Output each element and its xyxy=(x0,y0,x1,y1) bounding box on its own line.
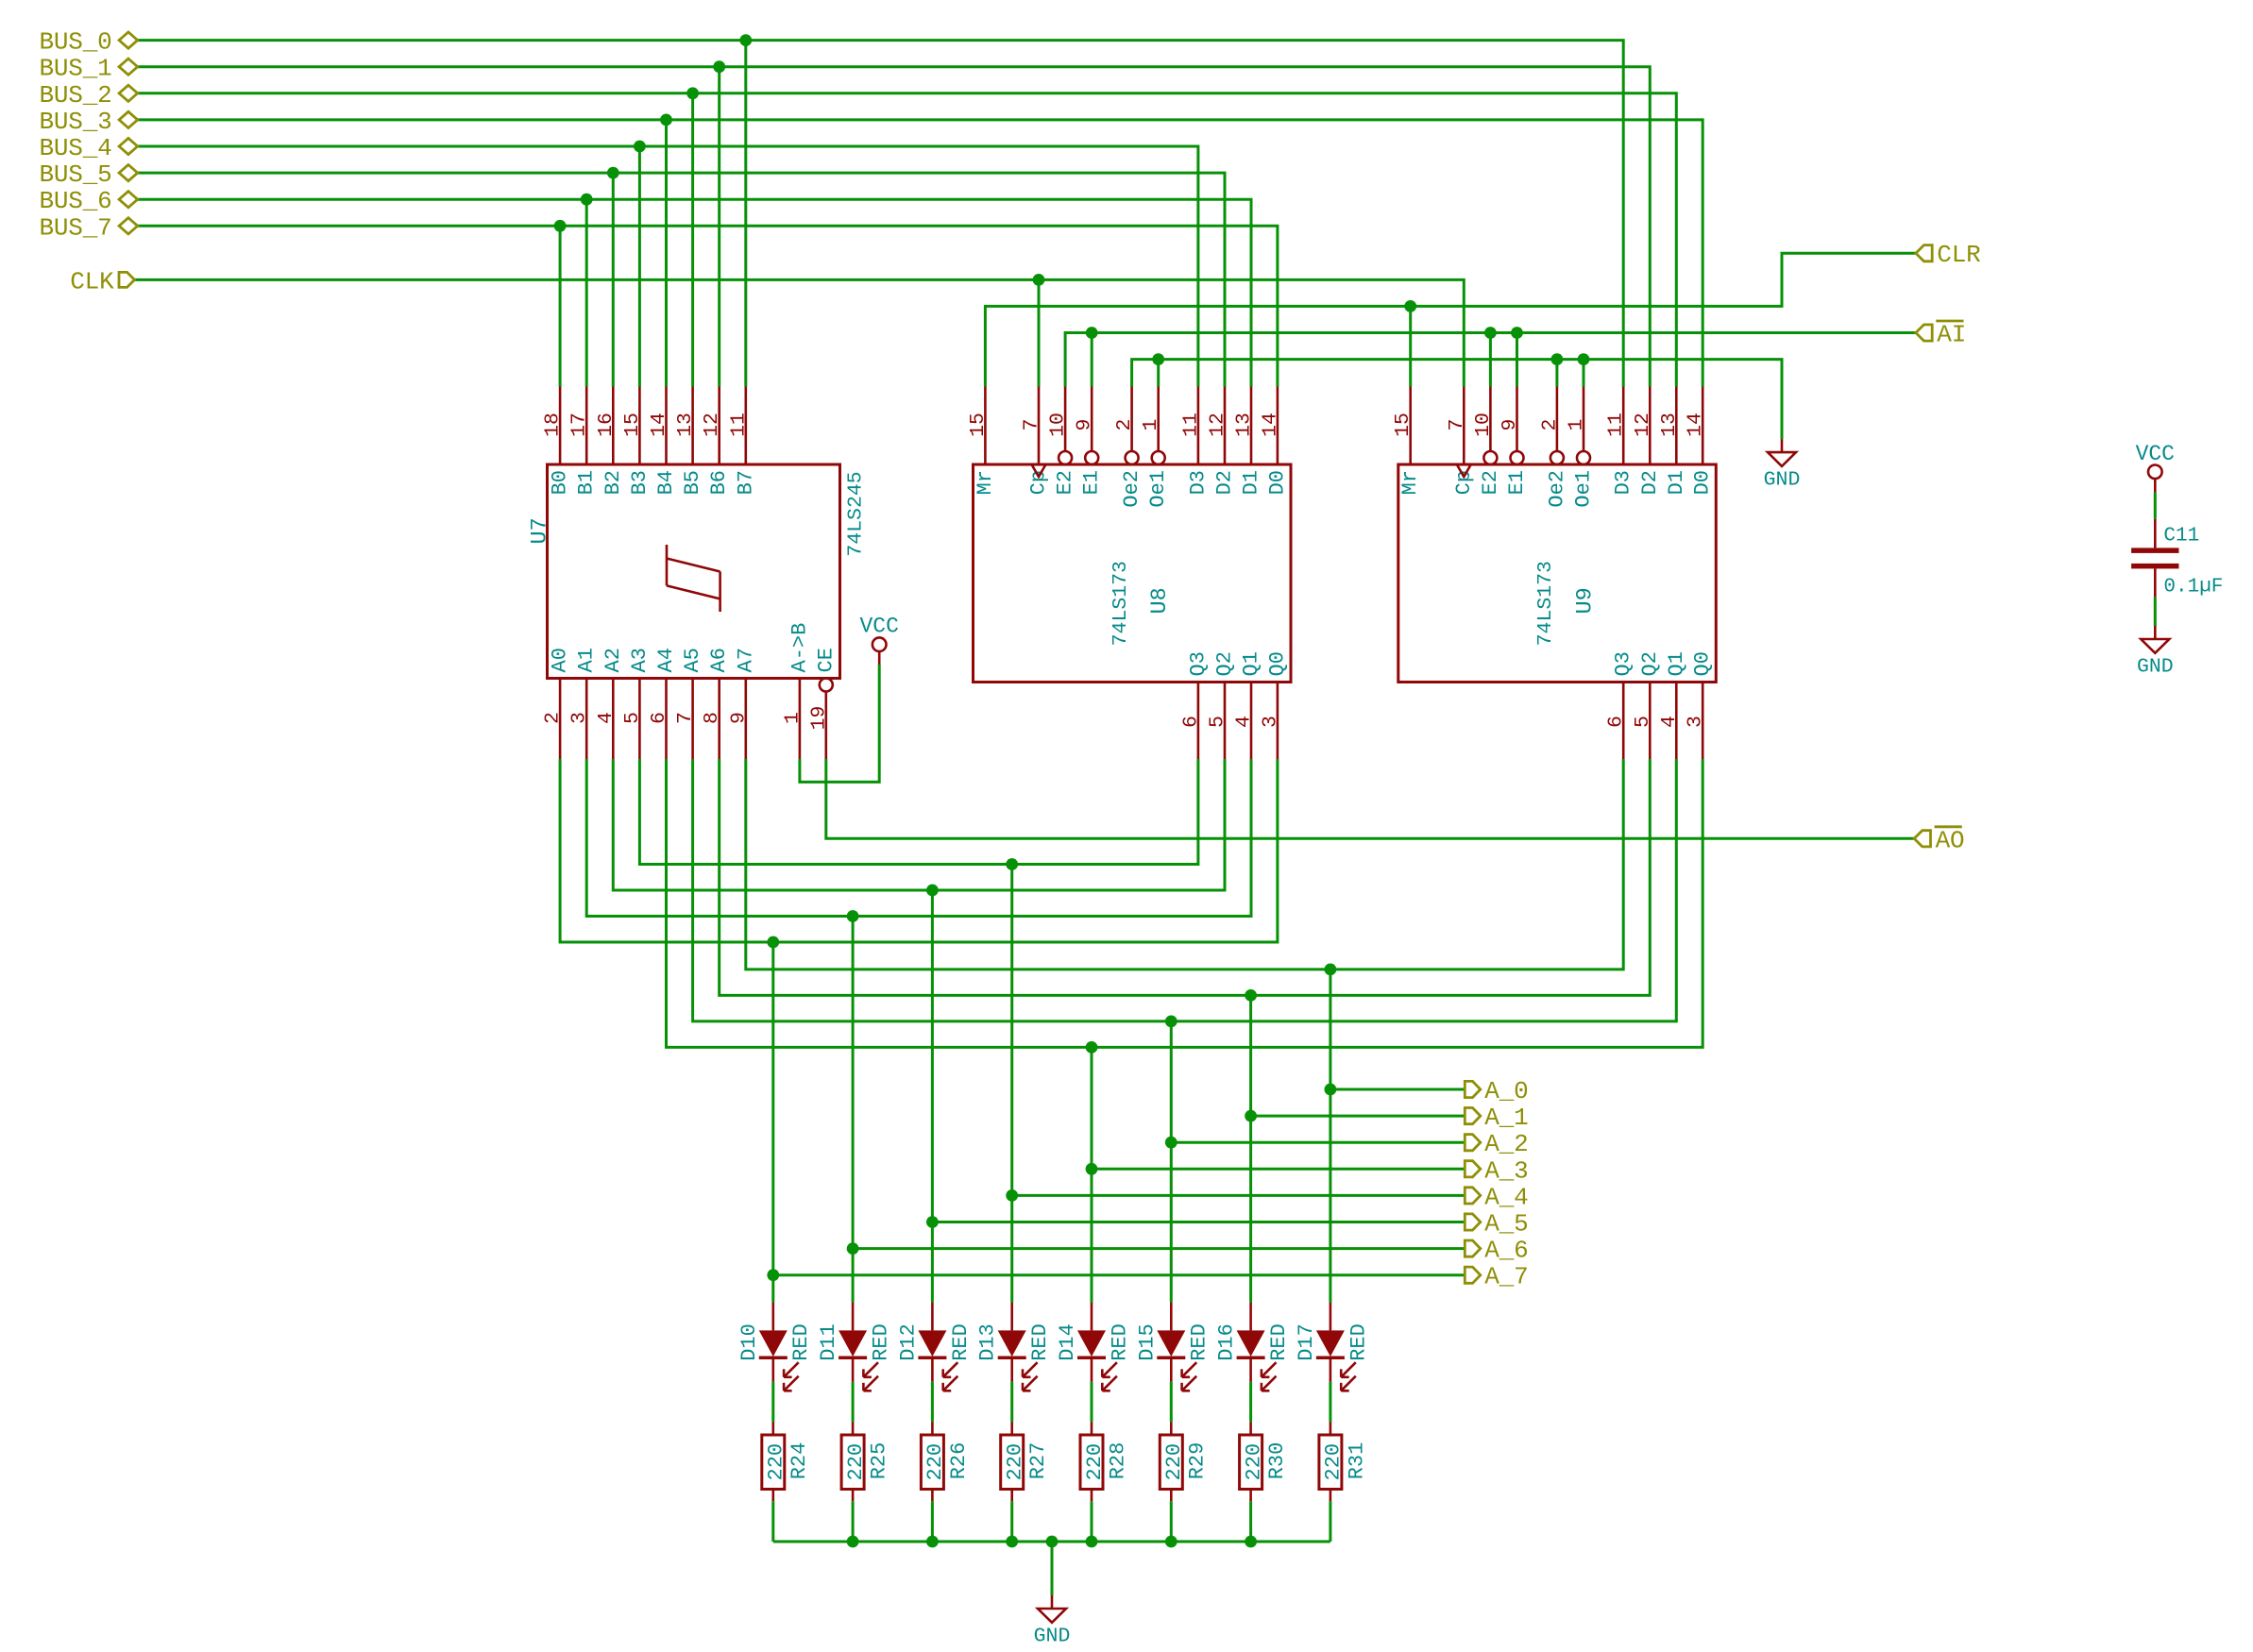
svg-text:RED: RED xyxy=(1108,1323,1131,1361)
svg-text:B1: B1 xyxy=(575,470,599,495)
svg-text:D15: D15 xyxy=(1135,1323,1159,1361)
svg-text:7: 7 xyxy=(1446,419,1468,431)
svg-text:6: 6 xyxy=(648,712,670,724)
svg-text:D12: D12 xyxy=(896,1323,920,1361)
svg-text:A0: A0 xyxy=(549,648,572,672)
svg-text:13: 13 xyxy=(1233,413,1256,437)
svg-text:R26: R26 xyxy=(947,1442,971,1480)
svg-text:14: 14 xyxy=(648,413,670,437)
svg-text:RED: RED xyxy=(949,1323,973,1361)
svg-text:7: 7 xyxy=(1021,419,1043,431)
svg-text:B3: B3 xyxy=(628,470,652,495)
svg-text:Q0: Q0 xyxy=(1265,651,1289,676)
svg-text:1: 1 xyxy=(781,712,804,724)
svg-text:16: 16 xyxy=(595,413,618,437)
svg-text:1: 1 xyxy=(1140,419,1162,431)
svg-text:220: 220 xyxy=(1322,1443,1346,1481)
svg-text:11: 11 xyxy=(1179,413,1202,437)
svg-text:13: 13 xyxy=(1658,413,1681,437)
svg-text:12: 12 xyxy=(1207,413,1229,437)
svg-text:B2: B2 xyxy=(601,470,625,495)
svg-text:3: 3 xyxy=(1685,716,1707,728)
svg-text:A_5: A_5 xyxy=(1484,1210,1528,1239)
svg-text:Cp: Cp xyxy=(1027,470,1051,495)
svg-text:D10: D10 xyxy=(737,1323,761,1361)
svg-text:BUS_4: BUS_4 xyxy=(39,134,111,162)
svg-text:GND: GND xyxy=(1764,469,1801,492)
svg-text:E2: E2 xyxy=(1479,470,1502,495)
svg-text:AI: AI xyxy=(1937,321,1966,349)
svg-text:19: 19 xyxy=(807,706,830,731)
svg-text:B0: B0 xyxy=(549,470,572,495)
svg-text:D2: D2 xyxy=(1213,470,1237,495)
svg-text:D14: D14 xyxy=(1056,1323,1079,1361)
svg-text:BUS_6: BUS_6 xyxy=(39,187,111,215)
svg-text:3: 3 xyxy=(1259,716,1281,728)
svg-text:BUS_2: BUS_2 xyxy=(39,81,111,110)
svg-text:BUS_1: BUS_1 xyxy=(39,55,111,83)
svg-text:Q1: Q1 xyxy=(1665,651,1688,676)
svg-text:12: 12 xyxy=(1632,413,1654,437)
svg-text:Oe2: Oe2 xyxy=(1545,470,1568,508)
svg-text:A_0: A_0 xyxy=(1484,1077,1528,1105)
svg-text:220: 220 xyxy=(1004,1443,1027,1481)
svg-text:10: 10 xyxy=(1047,413,1070,437)
svg-text:10: 10 xyxy=(1472,413,1495,437)
svg-text:D1: D1 xyxy=(1240,470,1263,495)
svg-text:Q3: Q3 xyxy=(1612,651,1635,676)
svg-text:A7: A7 xyxy=(734,648,757,672)
svg-text:Oe2: Oe2 xyxy=(1120,470,1143,508)
svg-text:R28: R28 xyxy=(1106,1442,1129,1480)
svg-text:220: 220 xyxy=(923,1443,947,1481)
svg-text:74LS173: 74LS173 xyxy=(1534,561,1557,646)
svg-text:R27: R27 xyxy=(1026,1442,1050,1480)
svg-text:E1: E1 xyxy=(1080,470,1104,495)
svg-text:12: 12 xyxy=(701,413,723,437)
svg-text:B6: B6 xyxy=(707,470,731,495)
svg-text:BUS_5: BUS_5 xyxy=(39,160,111,189)
svg-text:220: 220 xyxy=(1242,1443,1265,1481)
svg-text:5: 5 xyxy=(1207,716,1229,728)
svg-text:E1: E1 xyxy=(1505,470,1529,495)
svg-text:BUS_7: BUS_7 xyxy=(39,213,111,242)
svg-text:D17: D17 xyxy=(1295,1323,1318,1361)
svg-text:0.1µF: 0.1µF xyxy=(2163,577,2223,598)
svg-text:R25: R25 xyxy=(868,1442,891,1480)
svg-text:A6: A6 xyxy=(707,648,731,672)
svg-text:U7: U7 xyxy=(528,517,553,544)
svg-text:15: 15 xyxy=(1392,413,1414,437)
svg-text:D13: D13 xyxy=(976,1323,1000,1361)
svg-text:A5: A5 xyxy=(681,648,704,672)
svg-text:C11: C11 xyxy=(2163,526,2199,548)
svg-text:7: 7 xyxy=(674,712,697,724)
svg-text:220: 220 xyxy=(765,1443,788,1481)
svg-text:VCC: VCC xyxy=(2136,442,2175,466)
svg-text:E2: E2 xyxy=(1054,470,1077,495)
svg-text:4: 4 xyxy=(1233,716,1256,728)
svg-text:A_2: A_2 xyxy=(1484,1130,1528,1158)
svg-text:A_3: A_3 xyxy=(1484,1156,1528,1185)
svg-text:18: 18 xyxy=(542,413,565,437)
svg-text:Mr: Mr xyxy=(1398,470,1422,495)
svg-text:9: 9 xyxy=(1499,419,1521,431)
svg-text:14: 14 xyxy=(1685,413,1707,437)
svg-text:6: 6 xyxy=(1179,716,1202,728)
svg-text:B5: B5 xyxy=(681,470,704,495)
svg-text:RED: RED xyxy=(789,1323,813,1361)
svg-text:74LS245: 74LS245 xyxy=(845,471,868,556)
svg-text:2: 2 xyxy=(542,712,565,724)
svg-text:A1: A1 xyxy=(575,648,599,672)
svg-text:RED: RED xyxy=(1347,1323,1370,1361)
svg-text:RED: RED xyxy=(1267,1323,1291,1361)
svg-text:220: 220 xyxy=(844,1443,868,1481)
svg-text:17: 17 xyxy=(568,413,591,437)
svg-text:A_4: A_4 xyxy=(1484,1183,1528,1211)
svg-text:13: 13 xyxy=(674,413,697,437)
svg-text:15: 15 xyxy=(967,413,990,437)
svg-text:R24: R24 xyxy=(788,1442,811,1480)
svg-text:Q3: Q3 xyxy=(1186,651,1210,676)
svg-text:1: 1 xyxy=(1566,419,1588,431)
svg-text:D0: D0 xyxy=(1265,470,1289,495)
svg-text:VCC: VCC xyxy=(859,615,898,639)
svg-text:4: 4 xyxy=(595,712,618,724)
svg-text:220: 220 xyxy=(1083,1443,1107,1481)
svg-text:A_7: A_7 xyxy=(1484,1263,1528,1291)
svg-text:Q2: Q2 xyxy=(1213,651,1237,676)
svg-text:A_6: A_6 xyxy=(1484,1237,1528,1265)
svg-text:A2: A2 xyxy=(601,648,625,672)
svg-text:RED: RED xyxy=(1188,1323,1211,1361)
svg-text:A4: A4 xyxy=(654,648,678,672)
svg-text:Oe1: Oe1 xyxy=(1146,470,1170,508)
svg-text:D3: D3 xyxy=(1612,470,1635,495)
svg-text:14: 14 xyxy=(1259,413,1281,437)
svg-text:BUS_3: BUS_3 xyxy=(39,108,111,136)
svg-text:74LS173: 74LS173 xyxy=(1110,561,1132,646)
svg-text:D0: D0 xyxy=(1691,470,1715,495)
svg-text:9: 9 xyxy=(1074,419,1096,431)
svg-text:B7: B7 xyxy=(734,470,757,495)
svg-text:Q2: Q2 xyxy=(1638,651,1662,676)
svg-text:D1: D1 xyxy=(1665,470,1688,495)
svg-text:R30: R30 xyxy=(1265,1442,1289,1480)
svg-text:5: 5 xyxy=(1632,716,1654,728)
svg-text:B4: B4 xyxy=(654,470,678,495)
svg-text:Cp: Cp xyxy=(1452,470,1476,495)
svg-text:2: 2 xyxy=(1538,419,1561,431)
svg-text:6: 6 xyxy=(1605,716,1628,728)
svg-text:2: 2 xyxy=(1113,419,1136,431)
svg-text:R29: R29 xyxy=(1186,1442,1210,1480)
svg-text:15: 15 xyxy=(621,413,644,437)
svg-text:5: 5 xyxy=(621,712,644,724)
svg-text:Q1: Q1 xyxy=(1240,651,1263,676)
svg-text:CE: CE xyxy=(814,648,838,672)
svg-text:220: 220 xyxy=(1162,1443,1186,1481)
svg-text:A->B: A->B xyxy=(788,623,811,673)
svg-text:CLK: CLK xyxy=(70,267,114,295)
svg-text:R31: R31 xyxy=(1345,1442,1368,1480)
svg-text:U8: U8 xyxy=(1147,587,1173,614)
svg-text:A_1: A_1 xyxy=(1484,1104,1528,1132)
svg-text:4: 4 xyxy=(1658,716,1681,728)
svg-text:9: 9 xyxy=(727,712,750,724)
svg-text:D16: D16 xyxy=(1215,1323,1239,1361)
svg-text:BUS_0: BUS_0 xyxy=(39,28,111,57)
svg-text:GND: GND xyxy=(1034,1625,1071,1647)
svg-text:Oe1: Oe1 xyxy=(1572,470,1596,508)
svg-text:Mr: Mr xyxy=(974,470,997,495)
svg-text:3: 3 xyxy=(568,712,591,724)
svg-text:D2: D2 xyxy=(1638,470,1662,495)
svg-text:RED: RED xyxy=(1028,1323,1052,1361)
svg-text:RED: RED xyxy=(870,1323,893,1361)
svg-text:U9: U9 xyxy=(1572,587,1598,614)
svg-text:Q0: Q0 xyxy=(1691,651,1715,676)
svg-text:A3: A3 xyxy=(628,648,652,672)
svg-text:D11: D11 xyxy=(817,1323,840,1361)
svg-text:GND: GND xyxy=(2137,655,2174,678)
svg-text:D3: D3 xyxy=(1186,470,1210,495)
svg-text:CLR: CLR xyxy=(1937,241,1980,269)
svg-text:AO: AO xyxy=(1936,826,1965,854)
svg-text:11: 11 xyxy=(727,413,750,437)
svg-text:8: 8 xyxy=(701,712,723,724)
svg-text:11: 11 xyxy=(1605,413,1628,437)
